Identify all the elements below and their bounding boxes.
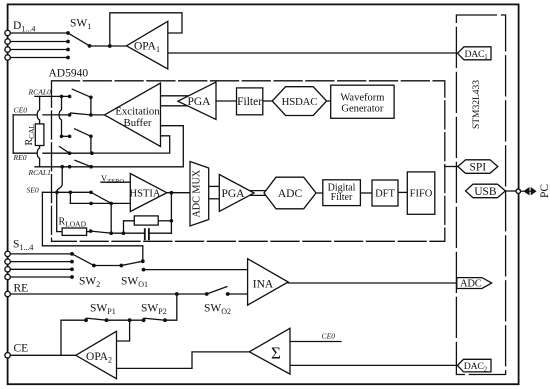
switch SW1 blade bbox=[68, 33, 90, 46]
hexagon ADC bbox=[264, 177, 316, 209]
wire excitation buffer to PGA1 upper bbox=[161, 95, 190, 97]
wire OPA2 upper connection bbox=[117, 320, 130, 341]
wire SE0 stub down to HSTIA input rail bbox=[69, 192, 71, 203]
terminal circles bbox=[5, 30, 521, 358]
svg-text:ADC: ADC bbox=[460, 279, 482, 290]
wire SWO1 to INA upper input bbox=[144, 269, 248, 271]
svg-text:CE0: CE0 bbox=[14, 106, 28, 115]
switch SE0 blade bbox=[91, 192, 111, 203]
wire D3 bbox=[10, 49, 68, 51]
arrow USB-PC double arrow bbox=[520, 190, 531, 192]
wire D4 bbox=[10, 57, 68, 59]
wire digital filter to DFT bbox=[360, 192, 372, 194]
wire D1 to SW1 bbox=[10, 32, 68, 34]
svg-text:SPI: SPI bbox=[469, 161, 486, 173]
box digital filter bbox=[323, 180, 361, 206]
wire RCAL1 line bbox=[35, 166, 91, 168]
wire SW2 to SWO1 bbox=[94, 265, 121, 267]
wire HSDAC to waveform generator bbox=[327, 100, 331, 102]
wire SW1 to OPA1 bbox=[90, 45, 128, 47]
wire excitation buffer outer loop to RCAL1 row bbox=[91, 126, 183, 167]
switch RCAL1 blade bbox=[75, 160, 91, 166]
junction dots bbox=[55, 31, 230, 322]
wire HSTIA output column bbox=[170, 193, 172, 234]
svg-text:VZERO: VZERO bbox=[101, 173, 124, 185]
node USB-PC bbox=[516, 189, 520, 193]
svg-text:Excitation: Excitation bbox=[115, 105, 160, 117]
wire sigma CE0 stub bbox=[290, 341, 341, 343]
wire CE0-RE0 left link bbox=[12, 115, 14, 153]
svg-text:SWP1: SWP1 bbox=[90, 303, 116, 317]
svg-text:RCAL: RCAL bbox=[24, 123, 36, 145]
wire OPA1 feedback loop bbox=[110, 13, 182, 46]
amplifier PGA2 bbox=[219, 175, 254, 212]
svg-text:HSDAC: HSDAC bbox=[282, 96, 318, 108]
box waveform generator bbox=[331, 85, 394, 118]
svg-text:AD5940: AD5940 bbox=[49, 68, 89, 80]
wire HSTIA inverting input bbox=[70, 202, 130, 204]
svg-text:RCAL1: RCAL1 bbox=[28, 168, 51, 177]
wire CE to SWP1 bbox=[61, 320, 86, 355]
wire contact column row3-RE0 bbox=[90, 136, 92, 153]
wire PGA1 to Filter bbox=[216, 100, 237, 102]
op-amp HSTIA bbox=[130, 174, 167, 212]
resistor RCAL column upper with hop over CE0 bbox=[37, 96, 39, 124]
resistor RLOAD body bbox=[62, 228, 87, 235]
wire ADC to digital filter bbox=[316, 192, 322, 194]
wire S4 bbox=[10, 276, 72, 278]
svg-text:SWO1: SWO1 bbox=[121, 276, 148, 290]
wire contact column RCAL0-CE0 bbox=[90, 97, 92, 115]
wire OPA2 output to sigma bbox=[117, 352, 250, 369]
terminal CE bbox=[5, 353, 10, 358]
svg-text:CE0: CE0 bbox=[322, 332, 336, 341]
wire Filter to HSDAC bbox=[263, 100, 272, 102]
tag USB bbox=[466, 184, 506, 198]
switch SWP2 blade bbox=[144, 318, 165, 320]
tag DAC2 bbox=[457, 359, 491, 372]
terminal D3 bbox=[5, 47, 10, 52]
switch SWP1 blade bbox=[87, 318, 107, 320]
svg-text:HSTIA: HSTIA bbox=[130, 189, 161, 200]
wire bus RCAL1 to SE0 jog bbox=[57, 167, 63, 193]
wire CE0 to excitation buffer input bbox=[91, 114, 106, 116]
svg-text:ADC: ADC bbox=[278, 188, 303, 200]
wire SWP2 to RE junction bbox=[165, 294, 177, 320]
wire RE0 line bbox=[13, 152, 92, 154]
resistor RF body bbox=[134, 216, 158, 225]
wire ADC MUX to PGA2 upper bbox=[209, 185, 220, 187]
op-amp OPA2 bbox=[76, 331, 117, 378]
wire S2 bbox=[10, 261, 72, 263]
terminal S1 bbox=[5, 251, 10, 256]
resistor RCAL body bbox=[35, 124, 44, 146]
svg-text:Generator: Generator bbox=[341, 104, 383, 115]
svg-text:RE0: RE0 bbox=[13, 153, 27, 162]
wire AD5940 to SPI bbox=[445, 166, 458, 168]
switch row3 blade bbox=[75, 129, 91, 137]
wire D2 bbox=[10, 41, 68, 43]
op-amp OPA1 bbox=[127, 21, 168, 69]
svg-text:STM32L433: STM32L433 bbox=[472, 80, 482, 129]
svg-text:INA: INA bbox=[253, 279, 274, 291]
svg-text:Filter: Filter bbox=[331, 192, 353, 203]
svg-text:PGA: PGA bbox=[221, 188, 245, 200]
box DFT bbox=[372, 180, 398, 206]
wire RF resistor right lead bbox=[158, 220, 171, 222]
wire S3 bbox=[10, 268, 72, 270]
wire bus RCAL0 to row3 with hop over CE0 bbox=[59, 96, 61, 136]
wire USB to PC bbox=[505, 190, 515, 192]
svg-text:Buffer: Buffer bbox=[124, 117, 152, 129]
terminal D1 bbox=[5, 30, 10, 35]
wire excitation buffer inner loop to RE0 row bbox=[92, 136, 170, 153]
svg-text:SWO2: SWO2 bbox=[204, 303, 231, 317]
switch SWO1 blade bbox=[121, 261, 143, 265]
wire RLOAD left lead bbox=[57, 192, 62, 231]
switch SWO2 blade bbox=[207, 287, 227, 294]
wire S1 bbox=[10, 253, 72, 255]
resistor RCAL column lower with hop over RE0 bbox=[37, 146, 39, 167]
svg-text:DFT: DFT bbox=[375, 189, 395, 200]
switch RCAL0 blade bbox=[72, 89, 91, 97]
svg-text:S1...4: S1...4 bbox=[13, 239, 33, 253]
svg-text:RCAL0: RCAL0 bbox=[28, 87, 52, 96]
svg-text:Filter: Filter bbox=[237, 96, 262, 108]
hexagon HSDAC bbox=[272, 87, 326, 116]
wire excitation buffer to PGA1 lower bbox=[161, 105, 189, 107]
box FIFO bbox=[407, 172, 435, 214]
wire ADC MUX to PGA2 lower bbox=[209, 198, 220, 200]
svg-text:RLOAD: RLOAD bbox=[59, 217, 87, 229]
svg-text:ADC MUX: ADC MUX bbox=[192, 169, 203, 217]
wire Vzero stub bbox=[101, 181, 130, 183]
wire RLOAD right lead bbox=[87, 231, 91, 233]
wire RE line bbox=[10, 293, 248, 295]
amplifier PGA1 bbox=[178, 82, 216, 120]
terminal S4 bbox=[5, 274, 10, 279]
wire SE0 drop to SWO1 bbox=[42, 192, 142, 261]
AD5940 dashed box bbox=[52, 81, 445, 242]
wire PGA2 to ADC lower bbox=[251, 194, 267, 196]
switch CE0 blade bbox=[71, 113, 91, 115]
wire INA output to ADC tag bbox=[288, 282, 457, 284]
tag SPI bbox=[458, 160, 498, 174]
wire SE0 line bbox=[42, 191, 89, 193]
svg-text:PGA: PGA bbox=[187, 96, 211, 108]
wire HSTIA output to ADC MUX bbox=[167, 192, 191, 194]
svg-text:D1...4: D1...4 bbox=[13, 20, 35, 34]
svg-text:USB: USB bbox=[474, 186, 497, 198]
wire SWP1 to SWP2 bbox=[107, 319, 144, 321]
terminal S2 bbox=[5, 259, 10, 264]
svg-text:CE: CE bbox=[14, 343, 29, 355]
svg-text:SE0: SE0 bbox=[27, 186, 39, 195]
wire node column to RLOAD row bbox=[110, 203, 112, 233]
wire OPA1 output to DAC1 bbox=[168, 52, 458, 54]
wire PGA2 to ADC upper bbox=[251, 190, 267, 192]
svg-text:FIFO: FIFO bbox=[410, 189, 433, 200]
amplifier INA bbox=[248, 259, 289, 305]
switch RLOAD blade bbox=[91, 231, 112, 233]
switch SW2 blade bbox=[72, 254, 94, 266]
tag DAC1 bbox=[458, 47, 492, 60]
wire sigma to DAC2 bbox=[290, 364, 457, 366]
wire feedback rail to capacitor bbox=[111, 232, 171, 234]
terminal D2 bbox=[5, 39, 10, 44]
summing amplifier sigma bbox=[249, 328, 290, 374]
svg-text:SW2: SW2 bbox=[79, 276, 100, 290]
STM32L433 dashed box bbox=[456, 15, 505, 375]
svg-text:SWP2: SWP2 bbox=[141, 303, 167, 317]
wire RCAL0 stub bbox=[35, 95, 70, 97]
wire CE line bbox=[10, 354, 76, 356]
wire CE0 stub bbox=[13, 114, 69, 116]
wire row3 bbox=[62, 135, 70, 137]
box Filter bbox=[237, 88, 263, 115]
svg-text:RE: RE bbox=[14, 283, 29, 295]
svg-text:PC: PC bbox=[539, 184, 550, 198]
wire DFT to FIFO bbox=[398, 191, 407, 193]
svg-text:Waveform: Waveform bbox=[340, 93, 384, 104]
op-amp excitation buffer bbox=[105, 83, 161, 147]
switch RE0 blade bbox=[60, 147, 70, 154]
capacitor C plates bbox=[145, 229, 149, 239]
svg-text:Σ: Σ bbox=[271, 344, 281, 363]
mux ADC MUX bbox=[190, 162, 209, 227]
terminal RE bbox=[5, 291, 10, 296]
svg-text:SW1: SW1 bbox=[70, 18, 91, 32]
terminal S3 bbox=[5, 267, 10, 272]
tag ADC bbox=[457, 278, 492, 289]
terminal D4 bbox=[5, 55, 10, 60]
wire RF resistor left lead bbox=[124, 221, 135, 233]
